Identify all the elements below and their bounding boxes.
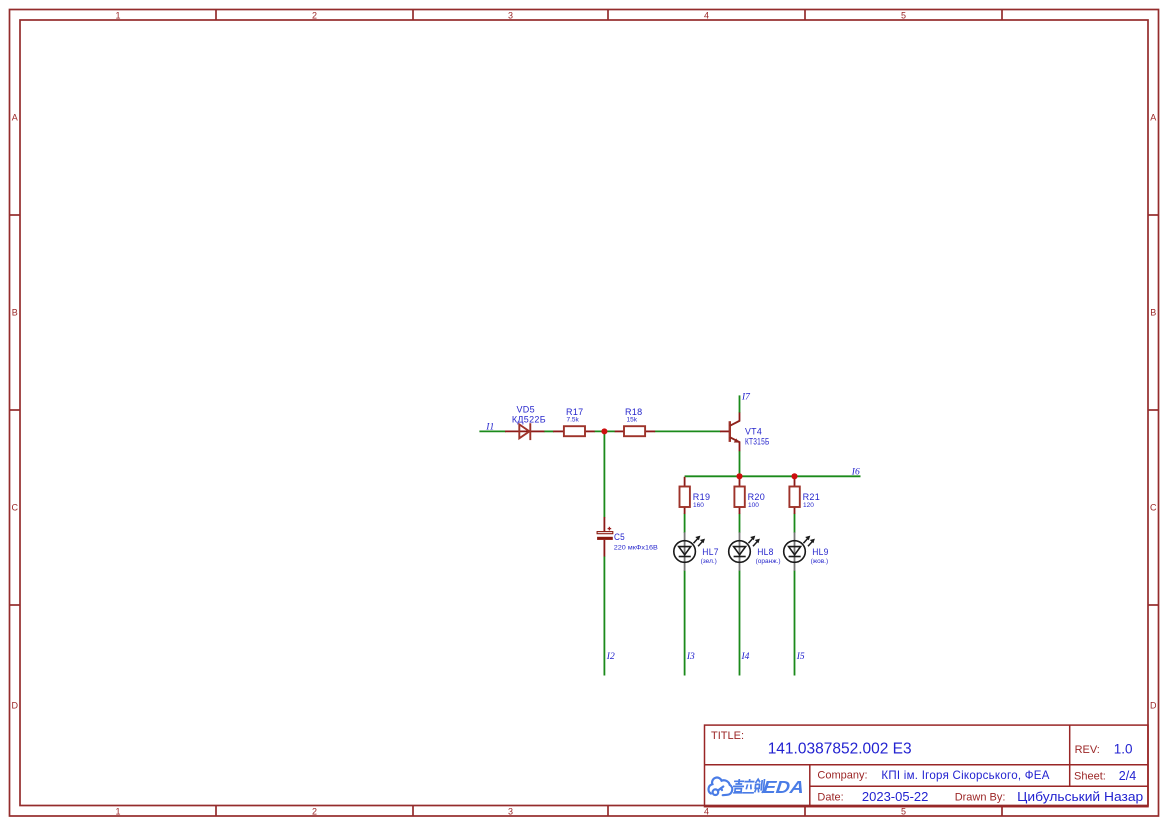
svg-text:2: 2	[312, 807, 317, 817]
diode VD5	[519, 423, 530, 440]
svg-text:A: A	[1150, 113, 1156, 123]
svg-text:15k: 15k	[627, 416, 638, 423]
svg-text:B: B	[12, 308, 18, 318]
wire R18 to VT4 base	[655, 430, 721, 432]
resistor R19	[680, 487, 690, 508]
wire net I3 R19 to HL7	[684, 514, 686, 534]
svg-text:7.5k: 7.5k	[567, 416, 580, 423]
svg-text:A: A	[12, 113, 18, 123]
pin HL8 leads gray	[739, 532, 741, 571]
svg-text:VD5: VD5	[517, 405, 535, 415]
svg-text:REV:: REV:	[1075, 744, 1100, 756]
LED HL8	[729, 536, 760, 563]
svg-text:2: 2	[312, 10, 317, 20]
wire net I4 HL8 to bottom	[739, 570, 741, 675]
title block	[705, 725, 1149, 807]
svg-text:Date:: Date:	[817, 792, 843, 804]
svg-text:КД522Б: КД522Б	[512, 414, 546, 424]
logo text 嘉立创	[732, 779, 764, 793]
svg-text:HL8: HL8	[757, 547, 774, 557]
svg-text:D: D	[1150, 701, 1157, 711]
wire R17 to R18 with junction	[594, 430, 615, 432]
svg-text:R18: R18	[625, 407, 643, 417]
pin R17 right	[585, 430, 595, 432]
svg-text:I7: I7	[741, 392, 751, 402]
svg-text:I5: I5	[796, 652, 805, 662]
svg-text:Drawn By:: Drawn By:	[955, 792, 1006, 804]
svg-text:R19: R19	[693, 492, 711, 502]
wire net I2 vertical C5 to bottom	[603, 556, 605, 675]
svg-text:1.0: 1.0	[1114, 741, 1133, 756]
resistor R21	[789, 487, 799, 508]
wire net I6 bus horizontal	[685, 475, 861, 477]
pin R18 left	[615, 430, 624, 432]
capacitor C5 polarized	[597, 527, 613, 540]
pin R19 top	[684, 477, 686, 487]
svg-text:160: 160	[693, 502, 704, 509]
svg-text:HL7: HL7	[702, 547, 719, 557]
svg-text:C5: C5	[614, 532, 625, 542]
svg-text:1: 1	[115, 807, 120, 817]
pin R20 top	[739, 477, 741, 487]
pin VT4 base	[720, 430, 730, 432]
svg-text:4: 4	[704, 10, 709, 20]
svg-text:Sheet:: Sheet:	[1074, 770, 1106, 782]
svg-text:Company:: Company:	[817, 770, 867, 782]
LED HL7	[674, 536, 705, 563]
resistor R17	[564, 426, 585, 436]
pin R18 right	[645, 430, 655, 432]
svg-text:I3: I3	[686, 652, 695, 662]
wire net I2 vertical junction to C5	[603, 431, 605, 517]
pin HL9 leads gray	[794, 532, 796, 571]
wire net I7 collector vertical	[739, 395, 741, 413]
svg-text:120: 120	[803, 502, 814, 509]
svg-text:R20: R20	[748, 492, 766, 502]
wire net I1 segment left of VD5	[479, 430, 505, 432]
pin C5 negative	[603, 540, 605, 557]
wire net I5 R21 to HL9	[794, 514, 796, 534]
pin R21 top	[794, 477, 796, 487]
svg-text:B: B	[1150, 308, 1156, 318]
junction node at R17/R18	[601, 428, 607, 434]
wire net I4 R20 to HL8	[739, 514, 741, 534]
resistor R18	[624, 426, 645, 436]
pin C5 positive	[603, 517, 605, 531]
svg-text:I6: I6	[851, 468, 860, 478]
pin VT4 emitter	[739, 442, 741, 452]
svg-text:R17: R17	[566, 407, 584, 417]
resistor R20	[734, 487, 744, 508]
wire net I5 HL9 to bottom	[794, 570, 796, 675]
pin R20 bottom	[739, 507, 741, 514]
svg-text:I2: I2	[606, 652, 615, 662]
svg-text:(зел.): (зел.)	[701, 558, 717, 565]
svg-text:1: 1	[115, 10, 120, 20]
svg-text:КПІ ім. Ігоря Сікорського, ФЕА: КПІ ім. Ігоря Сікорського, ФЕА	[881, 770, 1049, 782]
svg-text:3: 3	[508, 807, 513, 817]
svg-text:R21: R21	[803, 492, 821, 502]
svg-text:220 мкФх16В: 220 мкФх16В	[614, 544, 658, 551]
svg-text:100: 100	[748, 502, 759, 509]
svg-text:C: C	[1150, 503, 1157, 513]
pin VT4 collector	[739, 413, 741, 422]
svg-text:(оранж.): (оранж.)	[756, 558, 781, 565]
svg-text:2023-05-22: 2023-05-22	[862, 789, 929, 804]
svg-text:I4: I4	[741, 652, 750, 662]
svg-text:C: C	[11, 503, 18, 513]
svg-text:(жов.): (жов.)	[811, 558, 829, 565]
LED HL9	[784, 536, 815, 563]
svg-text:5: 5	[901, 807, 906, 817]
svg-text:I1: I1	[485, 422, 494, 432]
wire VD5 to R17	[544, 430, 554, 432]
svg-text:КТ315Б: КТ315Б	[745, 436, 770, 446]
svg-text:5: 5	[901, 10, 906, 20]
pin VD5 cathode	[529, 430, 544, 432]
pin HL7 leads gray	[684, 532, 686, 571]
wire net I3 HL7 to bottom	[684, 570, 686, 675]
pin VD5 anode	[505, 430, 529, 432]
junction node bus/R21	[791, 473, 797, 479]
svg-text:TITLE:: TITLE:	[711, 730, 744, 742]
svg-text:3: 3	[508, 10, 513, 20]
transistor VT4	[730, 421, 740, 443]
svg-text:Цибульський Назар: Цибульський Назар	[1017, 789, 1143, 804]
pin R17 left	[553, 430, 564, 432]
pin R19 bottom	[684, 507, 686, 514]
pin R21 bottom	[794, 507, 796, 514]
logo JLC EDA cloud	[709, 778, 733, 796]
svg-text:D: D	[11, 701, 18, 711]
svg-text:VT4: VT4	[745, 426, 762, 436]
svg-text:HL9: HL9	[812, 547, 829, 557]
svg-text:EDA: EDA	[762, 777, 805, 797]
svg-text:2/4: 2/4	[1119, 769, 1136, 783]
wire emitter to bus vertical	[739, 451, 741, 477]
svg-text:4: 4	[704, 807, 709, 817]
junction node bus/emitter	[736, 473, 742, 479]
svg-text:141.0387852.002 E3: 141.0387852.002 E3	[768, 741, 912, 758]
